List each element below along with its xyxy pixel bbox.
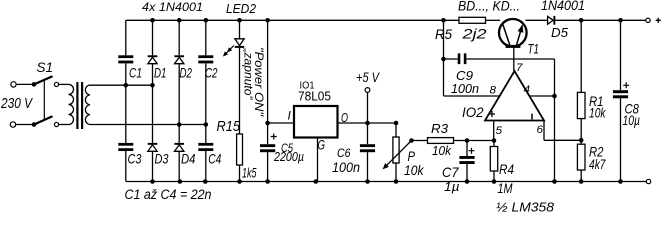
label 10k (R1) xyxy=(589,106,606,121)
wire IO1 ground pin xyxy=(317,138,319,182)
wire LED2 anode xyxy=(239,20,241,39)
wire IO1 input xyxy=(268,122,294,124)
wire +5V xyxy=(367,92,369,123)
node P wiper R3 xyxy=(409,138,414,143)
label C3 xyxy=(128,151,142,167)
svg-text:C7: C7 xyxy=(442,164,460,180)
svg-text:C6: C6 xyxy=(337,146,351,160)
svg-text:D1: D1 xyxy=(154,65,167,81)
label P xyxy=(408,148,416,164)
svg-text:230 V: 230 V xyxy=(0,96,33,112)
svg-text:8: 8 xyxy=(490,85,497,97)
switch S1 link xyxy=(43,80,45,121)
node top rail LED2 xyxy=(237,18,242,23)
label zapnuto xyxy=(242,47,256,100)
wire R15 to ground xyxy=(239,165,241,182)
wire C9 left xyxy=(444,58,458,60)
wire R2 bottom xyxy=(580,170,582,182)
transformer primary winding xyxy=(69,84,74,124)
diode D1 xyxy=(148,55,158,63)
potentiometer P body xyxy=(393,137,399,163)
node top rail C5 xyxy=(265,18,270,23)
svg-text:R4: R4 xyxy=(499,162,514,177)
label R5 xyxy=(435,26,452,42)
node bottom rail IO1 G xyxy=(314,179,319,184)
label IO1 xyxy=(300,80,315,92)
node bottom rail C8 xyxy=(618,179,623,184)
pin label O xyxy=(341,110,348,125)
wire LED2 to R15 xyxy=(239,48,241,134)
svg-text:+5 V: +5 V xyxy=(356,69,380,85)
wire input bottom xyxy=(16,124,34,126)
pin label G xyxy=(318,137,326,152)
node pin6 R1 R2 xyxy=(579,138,584,143)
svg-text:4k7: 4k7 xyxy=(589,157,606,172)
capacitor C6 xyxy=(360,144,375,152)
svg-text:10k: 10k xyxy=(589,106,606,121)
label 10k (R3) xyxy=(432,144,452,158)
diode D5 xyxy=(548,16,556,25)
wire pin4 ground xyxy=(530,95,555,97)
svg-text:T1: T1 xyxy=(528,42,540,57)
svg-text:D3: D3 xyxy=(155,151,169,167)
svg-text:5: 5 xyxy=(496,125,503,137)
svg-text:2j2: 2j2 xyxy=(461,26,487,42)
svg-text:1M: 1M xyxy=(498,181,514,196)
label C4 xyxy=(208,151,221,167)
output terminal minus xyxy=(646,179,650,183)
LED LED2 xyxy=(235,39,244,48)
svg-text:R3: R3 xyxy=(431,122,448,136)
wire C9 right xyxy=(466,58,554,60)
svg-text:R5: R5 xyxy=(435,26,452,42)
svg-text:100n: 100n xyxy=(451,81,479,96)
potentiometer P wiper xyxy=(383,141,412,170)
svg-text:2200µ: 2200µ xyxy=(273,149,304,164)
svg-text:G: G xyxy=(318,137,326,152)
output terminal plus xyxy=(646,18,650,22)
capacitor C8 xyxy=(613,82,629,98)
node +5V C6 xyxy=(365,121,370,126)
svg-text:C4: C4 xyxy=(208,151,221,167)
resistor R3 xyxy=(428,138,454,144)
label R3 xyxy=(431,122,448,136)
label D3 xyxy=(155,151,169,167)
wire C5 column top xyxy=(267,20,269,144)
label IO2 xyxy=(462,104,484,120)
svg-text:78L05: 78L05 xyxy=(298,90,331,104)
capacitor C7 xyxy=(459,148,474,164)
label +5 V xyxy=(356,69,380,85)
diode D3 xyxy=(148,143,158,151)
capacitor C3 xyxy=(118,143,133,151)
wire C8 top xyxy=(620,20,622,90)
pin number 8 xyxy=(490,85,497,97)
label D4 xyxy=(181,151,196,167)
diode D2 xyxy=(174,55,184,63)
svg-text:LED2: LED2 xyxy=(226,1,257,16)
svg-text:P: P xyxy=(408,148,416,164)
node top rail D2 xyxy=(177,18,182,23)
wire C7 top xyxy=(466,141,468,157)
node top rail pin8 branch xyxy=(441,18,446,23)
svg-text:D4: D4 xyxy=(181,151,196,167)
svg-text:6: 6 xyxy=(537,124,544,136)
svg-text:"Power ON": "Power ON" xyxy=(252,47,266,117)
wire AC node 1 xyxy=(90,84,153,86)
node bottom rail C7 xyxy=(465,179,470,184)
pin number 5 xyxy=(496,125,503,137)
label 4k7 xyxy=(589,157,606,172)
node C9 tap xyxy=(441,57,446,62)
wire pin6 xyxy=(544,121,581,141)
node bottom rail R2 xyxy=(579,179,584,184)
wire ground line xyxy=(554,59,556,182)
wire C6 to ground xyxy=(367,152,369,181)
op-amp minus marker xyxy=(531,114,533,120)
label S1 xyxy=(37,60,54,75)
svg-text:1N4001: 1N4001 xyxy=(541,0,585,13)
transformer secondary winding xyxy=(85,85,90,125)
svg-text:S1: S1 xyxy=(37,60,54,75)
diode D4 xyxy=(174,143,184,151)
label 230 V xyxy=(0,96,33,112)
svg-text:R15: R15 xyxy=(217,119,241,135)
label 100n (C9) xyxy=(451,81,479,96)
transistor T1 xyxy=(499,19,527,48)
label D2 xyxy=(180,65,193,81)
svg-text:1µ: 1µ xyxy=(444,180,460,194)
label BD KD xyxy=(458,0,520,13)
svg-text:C2: C2 xyxy=(205,65,218,81)
wire IO1 output xyxy=(338,122,397,124)
svg-text:10k: 10k xyxy=(404,163,425,178)
svg-text:D2: D2 xyxy=(180,65,193,81)
wire pin7 to T1 base xyxy=(513,48,515,71)
node bottom rail R4 xyxy=(492,179,497,184)
wire column D1-D3 xyxy=(152,20,154,181)
wire R3 to pin5 node xyxy=(454,140,495,142)
label C6 xyxy=(337,146,351,160)
switch S1 pole 1 xyxy=(32,76,59,87)
pin label I xyxy=(288,109,292,123)
wire C5 to ground xyxy=(267,152,269,181)
label D5 xyxy=(551,25,569,40)
wire P top xyxy=(395,123,397,137)
op-amp IO2 triangle xyxy=(485,71,544,121)
node bottom rail D4 xyxy=(178,179,183,184)
label T1 xyxy=(528,42,540,57)
wire C6 column xyxy=(367,123,369,144)
wire switch to transformer top xyxy=(59,83,69,85)
label R4 xyxy=(499,162,514,177)
node C7 xyxy=(465,138,470,143)
wire top rail xyxy=(126,19,646,21)
node R4 xyxy=(492,138,497,143)
wire AC node 2 xyxy=(90,124,206,126)
LED2 arrow 1 xyxy=(227,46,234,53)
svg-text:10µ: 10µ xyxy=(623,112,641,128)
node AC1-C1 xyxy=(124,83,129,88)
wire column C2-C4 xyxy=(205,20,207,181)
regulator IO1 78L05 xyxy=(294,106,338,138)
terminal +5V xyxy=(365,88,370,93)
svg-text:7: 7 xyxy=(516,62,523,74)
label 10u (C8) xyxy=(623,112,641,128)
svg-text:D5: D5 xyxy=(551,25,569,40)
label 4x 1N4001 xyxy=(142,2,203,14)
node bottom rail R15 xyxy=(237,179,242,184)
label C1 xyxy=(129,65,142,81)
label C7 xyxy=(442,164,460,180)
wire column D2-D4 xyxy=(178,20,180,181)
resistor R4 xyxy=(490,147,497,172)
switch S1 pole 2 xyxy=(32,116,59,126)
svg-text:4x 1N4001: 4x 1N4001 xyxy=(142,2,203,14)
node AC2-C2 xyxy=(204,122,209,127)
wire R1 R2 mid xyxy=(580,119,582,145)
svg-text:100n: 100n xyxy=(332,160,360,175)
node bottom rail D3 xyxy=(150,179,155,184)
wire input top xyxy=(16,83,34,85)
svg-text:1k5: 1k5 xyxy=(242,165,257,181)
svg-text:C1 až C4 = 22n: C1 až C4 = 22n xyxy=(125,187,212,202)
label 1k5 xyxy=(242,165,257,181)
node top rail C8 xyxy=(618,18,623,23)
transformer core xyxy=(76,82,83,129)
label Power ON xyxy=(252,47,266,117)
resistor R2 xyxy=(577,144,585,170)
capacitor C1 xyxy=(118,55,133,63)
label R1 xyxy=(589,93,604,109)
wire R4 to ground xyxy=(493,171,495,182)
label 1N4001 (D5) xyxy=(541,0,585,13)
label C9 xyxy=(456,68,473,83)
input terminal bottom (230V) xyxy=(10,122,15,127)
svg-text:C3: C3 xyxy=(128,151,142,167)
wire R4 top xyxy=(493,141,495,147)
wire R1 top xyxy=(580,20,582,92)
label C5 xyxy=(281,141,293,155)
node bottom rail P xyxy=(394,179,399,184)
input terminal top (230V) xyxy=(11,82,16,87)
resistor R1 xyxy=(577,92,585,118)
label R15 xyxy=(217,119,241,135)
svg-text:BD..., KD...: BD..., KD... xyxy=(458,0,520,13)
pin number 4 xyxy=(524,84,531,96)
node bottom rail C5 xyxy=(265,179,270,184)
resistor R5 xyxy=(459,17,486,23)
capacitor C4 xyxy=(198,143,213,151)
op-amp plus marker xyxy=(489,111,495,117)
svg-text:4: 4 xyxy=(524,84,531,96)
label half LM358 xyxy=(496,200,555,215)
wire C8 bottom xyxy=(620,98,622,181)
svg-text:½ LM358: ½ LM358 xyxy=(496,200,555,214)
svg-text:C1: C1 xyxy=(129,65,142,81)
wire C7 to ground xyxy=(466,164,468,182)
wire bottom rail xyxy=(126,181,647,183)
node bottom rail C6 xyxy=(365,179,370,184)
node top rail C2 xyxy=(204,18,209,23)
wire switch to transformer bottom xyxy=(59,124,69,126)
node bottom rail ground line xyxy=(552,179,557,184)
label 1u (C7) xyxy=(444,180,460,194)
label LED2 xyxy=(226,1,257,16)
label 10k (P) xyxy=(404,163,425,178)
wire wiper to R3 xyxy=(412,140,428,142)
pin number 6 xyxy=(537,124,544,136)
label 78L05 xyxy=(298,90,331,104)
label R2 xyxy=(589,144,604,160)
node top rail D1 xyxy=(150,18,155,23)
wire pin8 supply xyxy=(444,20,501,96)
LED2 arrow 2 xyxy=(223,50,230,57)
label output plus xyxy=(656,18,661,23)
node pin4 ground line xyxy=(552,94,557,99)
resistor R15 xyxy=(237,134,243,165)
label 2j2 xyxy=(461,26,487,42)
node AC2-D2 xyxy=(177,122,182,127)
capacitor C5 xyxy=(260,134,277,153)
node C5 IO1 input xyxy=(265,121,270,126)
label C2 xyxy=(205,65,218,81)
label C1 az C4 = 22n xyxy=(125,187,212,202)
label 1M xyxy=(498,181,514,196)
node bottom rail C4 xyxy=(203,179,208,184)
label C8 xyxy=(625,101,640,117)
wire pin5 xyxy=(493,121,495,141)
pin number 7 xyxy=(516,62,523,74)
node output wire P xyxy=(394,121,399,126)
wire column C1-C3 xyxy=(125,20,127,181)
node AC1-D1 xyxy=(150,83,155,88)
capacitor C9 xyxy=(458,53,467,64)
label 100n (C6) xyxy=(332,160,360,175)
capacitor C2 xyxy=(198,55,213,63)
label 2200u xyxy=(273,149,304,164)
wire P bottom xyxy=(395,163,397,182)
node top rail R1 xyxy=(579,18,584,23)
label D1 xyxy=(154,65,167,81)
svg-text:10k: 10k xyxy=(432,144,452,158)
svg-text:IO2: IO2 xyxy=(462,104,484,120)
